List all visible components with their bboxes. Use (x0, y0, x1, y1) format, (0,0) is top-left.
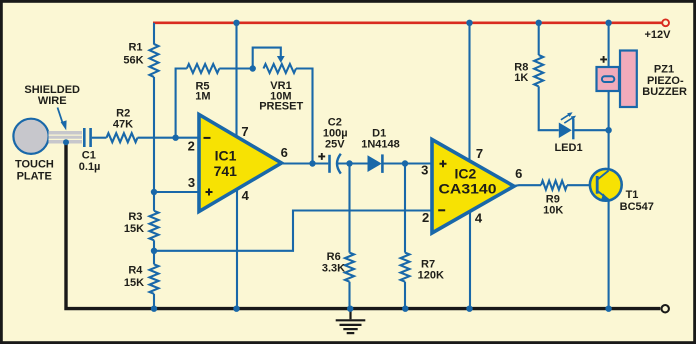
ground (349, 310, 351, 319)
svg-text:15K: 15K (124, 277, 144, 289)
resistor R2 (107, 133, 138, 142)
ground rail (66, 143, 660, 309)
svg-text:3.3K: 3.3K (322, 262, 345, 274)
wire R6 to ground (348, 282, 350, 309)
wire node A to R3 (153, 192, 155, 211)
wire C1 to R2 (92, 137, 107, 139)
resistor R7 (401, 253, 410, 282)
svg-text:T1: T1 (626, 189, 639, 201)
wire R5 to VR1 node (219, 67, 252, 69)
svg-text:PZ1: PZ1 (654, 63, 674, 75)
touch plate (13, 119, 48, 154)
wire R7 to ground (404, 282, 406, 309)
C2 plus mark (318, 153, 325, 160)
wire IC2 pin7 to rail (468, 23, 470, 161)
svg-text:PLATE: PLATE (17, 171, 52, 183)
IC1 plus input mark (206, 189, 213, 196)
svg-text:IC2: IC2 (455, 166, 477, 182)
node A (pin3 junction) (151, 189, 157, 195)
svg-text:WIRE: WIRE (38, 95, 67, 107)
resistor R1 (150, 44, 159, 77)
svg-text:C1: C1 (82, 149, 96, 161)
IC1 minus input mark (204, 137, 211, 139)
resistor R9 (541, 181, 567, 190)
svg-text:TOUCH: TOUCH (15, 159, 54, 171)
VR1 wiper arm (253, 48, 281, 69)
wire rail to R8 (538, 23, 540, 55)
wire IC1 pin4 to ground (236, 189, 238, 309)
wire IC1 pin3 (154, 191, 199, 193)
svg-text:BUZZER: BUZZER (642, 86, 687, 98)
svg-text:7: 7 (241, 124, 248, 139)
+12V terminal (662, 19, 669, 26)
node VR1 left (250, 65, 256, 71)
resistor R8 (534, 55, 543, 86)
svg-text:25V: 25V (325, 139, 345, 151)
capacitor C2 (polarized) (328, 155, 331, 173)
svg-text:C2: C2 (328, 116, 342, 128)
svg-text:R3: R3 (128, 211, 142, 223)
svg-text:0.1µ: 0.1µ (79, 161, 101, 173)
wire rail to R1 (153, 23, 155, 45)
svg-text:1N4148: 1N4148 (361, 139, 400, 151)
buzzer plus mark (600, 56, 607, 63)
wire IC2 out to R9 (513, 184, 541, 187)
preset VR1 (264, 64, 297, 73)
svg-text:CA3140: CA3140 (439, 181, 497, 197)
wire VR1 to output node (296, 69, 313, 164)
svg-text:1M: 1M (195, 90, 210, 102)
svg-text:47K: 47K (113, 119, 133, 131)
wire node B to IC2 pin2 (154, 211, 432, 251)
node C2/R6 (346, 160, 352, 166)
diode D1 (368, 155, 382, 172)
shielded cable (49, 131, 83, 144)
wire R3 to node B (153, 240, 155, 251)
node R5 branch (172, 135, 178, 141)
transistor T1 BC547 (590, 169, 622, 201)
svg-text:56K: 56K (123, 55, 143, 67)
node VR1 feedback (309, 160, 315, 166)
wire rail to buzzer (608, 23, 610, 67)
wire node B to R4 (153, 251, 155, 265)
svg-text:15K: 15K (124, 223, 144, 235)
wire node to collector (608, 130, 610, 171)
svg-text:PRESET: PRESET (259, 100, 303, 112)
svg-text:1K: 1K (514, 72, 528, 84)
svg-text:3: 3 (188, 175, 195, 190)
svg-text:6: 6 (515, 166, 522, 181)
buzzer body (620, 51, 637, 108)
ground terminal (662, 305, 669, 312)
shield ground junction (63, 139, 69, 145)
svg-text:741: 741 (214, 163, 238, 179)
wire emitter to ground rail (608, 200, 610, 309)
wire R4 to ground rail (153, 294, 155, 309)
wire node to R7 (404, 164, 406, 253)
wire R8 to LED (539, 86, 559, 130)
resistor R3 (150, 211, 159, 241)
capacitor C1 (83, 128, 86, 147)
node B (divider mid) (151, 248, 157, 254)
op-amp IC1 741 (199, 115, 282, 212)
svg-text:+12V: +12V (645, 29, 672, 41)
wire R1 to node A (153, 77, 155, 192)
svg-text:BC547: BC547 (620, 201, 654, 213)
wire node to R6 (348, 164, 350, 253)
svg-text:3: 3 (421, 163, 428, 178)
svg-text:2: 2 (422, 210, 429, 225)
svg-text:R4: R4 (128, 265, 143, 277)
pointer arrow to cable (58, 108, 63, 124)
svg-text:2: 2 (188, 139, 195, 154)
svg-text:4: 4 (475, 210, 483, 225)
resistor R5 (187, 64, 220, 73)
wire IC2 pin4 to ground (469, 211, 471, 309)
+12V supply rail (153, 21, 662, 24)
wire R9 to base (567, 184, 597, 186)
resistor R4 (150, 264, 159, 293)
node LED/collector (605, 127, 611, 133)
svg-text:7: 7 (476, 146, 483, 161)
wire pin2 node up to R5 (176, 69, 187, 138)
IC2 plus input mark (440, 160, 447, 167)
piezo dash symbol (602, 76, 614, 82)
IC2 minus input mark (438, 209, 445, 211)
wire buzzer to collector node (608, 91, 610, 130)
svg-text:6: 6 (281, 145, 288, 160)
svg-text:LED1: LED1 (554, 142, 582, 154)
piezo element PZ1 (597, 67, 620, 91)
svg-text:R6: R6 (327, 251, 341, 263)
node D1/R7 (402, 160, 408, 166)
wire C2 to D1 (338, 162, 368, 164)
svg-text:R1: R1 (128, 42, 142, 54)
svg-text:4: 4 (242, 188, 250, 203)
wire IC1 out to C2 (282, 162, 329, 164)
svg-text:D1: D1 (372, 127, 386, 139)
resistor R6 (345, 253, 354, 282)
svg-text:10K: 10K (543, 205, 563, 217)
svg-text:120K: 120K (418, 270, 444, 282)
op-amp IC2 CA3140 (432, 140, 514, 234)
wire D1 to IC2 pin3 (382, 162, 432, 164)
svg-text:IC1: IC1 (215, 148, 237, 164)
LED1 (559, 123, 572, 139)
wire LED to collector node (573, 129, 608, 131)
wire IC1 pin7 to rail (235, 23, 237, 138)
LED emission arrows (561, 114, 573, 123)
wire R2 to IC1 pin2 (138, 137, 199, 139)
